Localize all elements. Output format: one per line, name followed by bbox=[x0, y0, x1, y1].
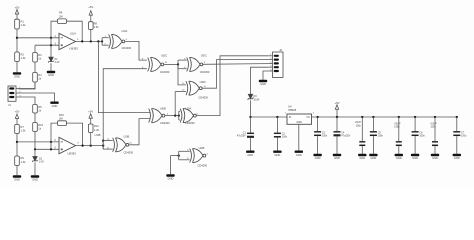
svg-text:CD4030: CD4030 bbox=[198, 96, 208, 100]
svg-text:VO: VO bbox=[306, 116, 310, 119]
svg-text:100n: 100n bbox=[356, 125, 362, 127]
svg-text:+5V: +5V bbox=[14, 110, 19, 114]
svg-text:R6: R6 bbox=[59, 11, 63, 15]
svg-text:U5/D: U5/D bbox=[200, 80, 206, 84]
svg-text:R2: R2 bbox=[21, 53, 25, 57]
svg-text:LM393: LM393 bbox=[68, 151, 77, 155]
svg-text:GND: GND bbox=[14, 178, 20, 182]
svg-text:U2/B: U2/B bbox=[124, 134, 130, 138]
svg-text:100n: 100n bbox=[461, 134, 467, 137]
svg-text:GND: GND bbox=[371, 156, 377, 160]
svg-text:100n: 100n bbox=[282, 135, 288, 138]
svg-text:GND: GND bbox=[432, 156, 438, 160]
svg-text:CD4030: CD4030 bbox=[198, 163, 208, 167]
svg-text:J1: J1 bbox=[8, 103, 11, 107]
svg-text:U2/A: U2/A bbox=[122, 29, 128, 33]
svg-text:100n: 100n bbox=[322, 134, 328, 137]
svg-text:GND: GND bbox=[412, 156, 418, 160]
svg-text:78M05: 78M05 bbox=[288, 108, 297, 112]
svg-text:100n: 100n bbox=[431, 127, 437, 129]
svg-text:GND: GND bbox=[315, 156, 321, 160]
svg-text:2M: 2M bbox=[59, 117, 63, 121]
svg-text:R4: R4 bbox=[38, 73, 42, 77]
svg-text:U1/B: U1/B bbox=[95, 133, 101, 137]
svg-text:U1UP: U1UP bbox=[355, 122, 362, 124]
svg-text:1.3k: 1.3k bbox=[21, 129, 27, 133]
svg-text:R7: R7 bbox=[21, 125, 25, 129]
svg-text:GND: GND bbox=[32, 178, 38, 182]
svg-text:3.3V: 3.3V bbox=[55, 61, 60, 64]
svg-text:U2/A: U2/A bbox=[186, 106, 192, 110]
svg-text:GND: GND bbox=[52, 104, 58, 108]
svg-text:GND: GND bbox=[247, 153, 253, 157]
svg-text:R15: R15 bbox=[59, 113, 64, 117]
svg-text:2M: 2M bbox=[59, 14, 63, 18]
svg-text:CD4030: CD4030 bbox=[160, 121, 170, 125]
svg-text:U5/C: U5/C bbox=[201, 54, 207, 58]
svg-text:R1: R1 bbox=[21, 20, 25, 24]
svg-text:1.3k: 1.3k bbox=[94, 25, 100, 29]
svg-text:1.3k: 1.3k bbox=[21, 160, 27, 164]
svg-text:R9: R9 bbox=[21, 156, 25, 160]
svg-text:CD4030: CD4030 bbox=[185, 121, 195, 125]
svg-text:U3UP: U3UP bbox=[431, 124, 438, 126]
svg-text:U5UP: U5UP bbox=[394, 124, 401, 126]
svg-text:+5V: +5V bbox=[88, 109, 93, 113]
svg-text:R10: R10 bbox=[38, 123, 43, 127]
svg-text:GND: GND bbox=[396, 156, 402, 160]
svg-text:100n: 100n bbox=[419, 134, 425, 137]
svg-text:GND: GND bbox=[359, 156, 365, 160]
svg-text:U5/B: U5/B bbox=[160, 106, 166, 110]
svg-text:1.3k: 1.3k bbox=[21, 23, 27, 27]
svg-text:LM393: LM393 bbox=[70, 47, 79, 51]
svg-text:U5/C: U5/C bbox=[161, 54, 167, 58]
svg-text:CD4030: CD4030 bbox=[200, 70, 210, 74]
svg-text:CD4030: CD4030 bbox=[122, 46, 132, 50]
svg-text:GND: GND bbox=[48, 73, 54, 77]
svg-text:CD4030: CD4030 bbox=[160, 70, 170, 74]
svg-text:GND: GND bbox=[296, 153, 302, 157]
svg-text:100n: 100n bbox=[378, 134, 384, 137]
svg-text:IN: IN bbox=[289, 116, 292, 119]
svg-text:47u/25V: 47u/25V bbox=[341, 134, 350, 137]
svg-text:SS14: SS14 bbox=[254, 98, 261, 101]
svg-text:GND: GND bbox=[14, 75, 20, 79]
svg-text:1.3k: 1.3k bbox=[21, 56, 27, 60]
svg-text:GND: GND bbox=[296, 121, 302, 124]
svg-text:R3: R3 bbox=[38, 53, 42, 57]
svg-text:47u/25V: 47u/25V bbox=[237, 134, 246, 137]
svg-text:R12: R12 bbox=[94, 124, 99, 128]
svg-text:R5: R5 bbox=[38, 105, 42, 109]
svg-text:GND: GND bbox=[334, 156, 340, 160]
svg-text:GND: GND bbox=[260, 82, 266, 86]
svg-text:1.3k: 1.3k bbox=[94, 128, 100, 132]
svg-text:GND: GND bbox=[275, 153, 281, 157]
svg-text:U2/B: U2/B bbox=[199, 146, 205, 150]
svg-text:R8: R8 bbox=[94, 22, 98, 26]
svg-text:100n: 100n bbox=[394, 127, 400, 129]
svg-text:J2: J2 bbox=[279, 48, 282, 52]
svg-text:+5V: +5V bbox=[88, 5, 93, 9]
svg-text:3.3V: 3.3V bbox=[39, 160, 44, 163]
svg-text:CD4030: CD4030 bbox=[124, 151, 134, 155]
svg-text:U1/A: U1/A bbox=[70, 31, 76, 35]
svg-text:GND: GND bbox=[168, 177, 174, 181]
svg-text:GND: GND bbox=[454, 156, 460, 160]
